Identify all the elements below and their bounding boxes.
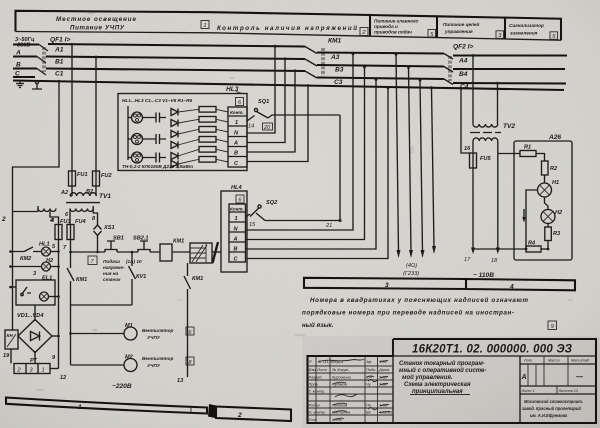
svg-text:SQ1: SQ1 — [258, 99, 269, 105]
svg-text:QF1 I>: QF1 I> — [50, 37, 70, 44]
G_NOTE — [302, 297, 557, 330]
index box 2 — [360, 28, 368, 36]
feeder wire to main drive 3 — [420, 80, 423, 252]
svg-text:Н1: Н1 — [552, 180, 559, 186]
diode V3 — [171, 131, 178, 138]
wire B1 — [46, 57, 305, 60]
svg-text:15: 15 — [249, 222, 256, 228]
feeder wire to main drive 1 — [396, 54, 399, 252]
lamp H1 — [538, 183, 552, 197]
feeder wire to main drive 4 — [432, 88, 435, 248]
svg-text:В: В — [234, 246, 238, 252]
protection block — [172, 251, 190, 253]
index box 7 — [88, 256, 97, 265]
PE rail corner from N bus — [13, 81, 60, 330]
TV2 core dashes — [470, 132, 501, 134]
section box: Местное освещение / Питание УЧПУ — [16, 11, 213, 32]
lamp HL1 — [128, 117, 132, 119]
title block frame — [308, 339, 597, 423]
wire V4 from C3 to HL4 row B — [246, 80, 376, 250]
elbow wire to HL3 row C — [247, 86, 308, 162]
wire V3 from B3 to HL4 row A — [246, 67, 365, 240]
svg-text:порядковые номера при перев: порядковые номера при переводе надписей … — [302, 310, 514, 317]
svg-text:Пров.: Пров. — [309, 382, 319, 387]
svg-text:ТН-0,2-2 КЛ0150В Д219: ТН-0,2-2 КЛ0150В Д219 1,5мВт — [122, 164, 193, 169]
svg-text:1: 1 — [203, 23, 206, 29]
bold mark — [213, 242, 219, 263]
svg-text:УЧПУ: УЧПУ — [147, 363, 161, 368]
wire B2 — [95, 186, 97, 196]
svg-text:ТV1: ТV1 — [99, 193, 111, 200]
block HL4 outline — [221, 191, 247, 272]
section box: Питание главного привода и приводов подач — [370, 15, 437, 38]
phase input stub L1 — [13, 43, 39, 45]
wire A1 — [48, 44, 305, 47]
index box 3 — [496, 31, 504, 39]
svg-text:ХS1: ХS1 — [103, 225, 115, 231]
svg-text:ЕL1: ЕL1 — [42, 276, 52, 282]
resistor R4 — [199, 137, 216, 143]
wire A4 — [453, 54, 567, 56]
transformer TV2 secondary — [473, 138, 498, 141]
control line — [71, 251, 161, 253]
svg-text:16: 16 — [464, 146, 471, 152]
inner left wire H1 loop — [526, 190, 538, 249]
index box 5 — [428, 30, 436, 38]
wire C3 — [317, 78, 444, 80]
svg-text:QF2 I>: QF2 I> — [453, 44, 473, 51]
svg-text:Станок токарный програм-: Станок токарный програм- — [399, 360, 485, 367]
svg-text:КV1: КV1 — [136, 274, 146, 280]
signature squiggles — [335, 394, 357, 397]
lamp HL2 — [128, 138, 132, 140]
diode V1 — [171, 109, 178, 116]
tap 6 from secondary — [69, 209, 71, 225]
section box: Контроль наличия напряжений — [212, 12, 370, 36]
svg-text:А26: А26 — [548, 134, 561, 141]
svg-text:Листов 13: Листов 13 — [558, 388, 579, 393]
relay KH — [5, 330, 18, 349]
svg-text:SВ1: SВ1 — [113, 236, 124, 242]
svg-text:21: 21 — [325, 223, 332, 229]
G_TITLE — [302, 336, 600, 428]
svg-text:КМ1: КМ1 — [76, 277, 87, 283]
G_MIDWIRES — [246, 45, 499, 277]
wire 18 down to signal line — [497, 154, 499, 250]
svg-text:С: С — [15, 71, 20, 78]
wire from N rail to secondary left — [13, 209, 39, 212]
svg-text:Конт.: Конт. — [230, 207, 244, 212]
fuse FU1 — [69, 171, 76, 186]
capacitor C2 — [143, 134, 167, 144]
svg-text:С3: С3 — [334, 79, 343, 86]
svg-text:ния на: ния на — [103, 271, 119, 276]
svg-text:ный язык.: ный язык. — [302, 322, 334, 329]
svg-text:R2: R2 — [550, 166, 558, 172]
wire V2 from A3 to HL4 row N — [246, 54, 353, 230]
elbow wire to HL3 row A — [247, 59, 285, 143]
bypass bottom wire — [71, 304, 133, 306]
wires diodes to resistors — [178, 109, 199, 164]
right cells grid — [520, 356, 596, 423]
svg-text:Вентилятор: Вентилятор — [142, 356, 174, 361]
node dot on A1 for FU1 — [71, 43, 74, 46]
svg-text:станок: станок — [103, 277, 121, 282]
wire R2 to H1 — [544, 175, 546, 183]
wire from B1 down to FU2 — [95, 57, 97, 171]
svg-text:R4: R4 — [528, 241, 536, 247]
svg-text:Дата: Дата — [378, 367, 390, 372]
svg-text:FU2: FU2 — [101, 173, 112, 179]
contact KM1 fan feed — [184, 263, 191, 377]
neutral wire N (long) — [13, 81, 564, 91]
connector XT of HL4 — [229, 204, 246, 262]
wires resistors to connector — [216, 109, 228, 162]
svg-text:КМ1: КМ1 — [328, 38, 342, 45]
G_HL3 — [118, 86, 247, 171]
svg-text:КМ2: КМ2 — [20, 256, 32, 262]
arrow into A26 — [523, 209, 525, 218]
block HL3 outline — [118, 94, 247, 171]
svg-text:3: 3 — [385, 282, 389, 289]
svg-text:1: 1 — [42, 368, 45, 374]
G_BOTTOM — [6, 278, 575, 421]
index box 6 — [236, 98, 244, 106]
svg-text:SQ2: SQ2 — [266, 200, 278, 206]
svg-text:Вентилятор: Вентилятор — [142, 328, 174, 333]
svg-text:По: По — [366, 403, 372, 408]
svg-text:1: 1 — [235, 216, 238, 222]
phase input stub A — [13, 55, 37, 57]
resistor R2 — [542, 161, 549, 175]
TV1 secondary winding 1 — [38, 209, 56, 212]
revision table entries — [309, 359, 393, 422]
svg-text:А2: А2 — [60, 190, 69, 196]
left revision table grid — [308, 366, 394, 415]
G_HL4 — [221, 185, 341, 272]
svg-text:Т. контр.: Т. контр. — [309, 389, 326, 394]
svg-text:В: В — [16, 62, 21, 69]
motor M1 fan — [71, 333, 125, 335]
svg-text:Масса: Масса — [548, 358, 560, 363]
feeder wire to main drive 2 — [409, 68, 412, 253]
index box 9 — [548, 321, 557, 330]
ground terminal with stub — [36, 81, 39, 84]
section box: Сигнализатор заземления — [505, 18, 561, 41]
bypass contact KV1 — [129, 252, 136, 305]
svg-text:А4: А4 — [458, 58, 468, 65]
secondary left lead / node 16 — [472, 141, 474, 153]
svg-text:С1: С1 — [55, 71, 64, 78]
fuse FU2 — [93, 171, 100, 186]
svg-text:Лист 1: Лист 1 — [521, 388, 535, 393]
node 5 wire — [58, 240, 60, 369]
svg-text:9: 9 — [551, 324, 554, 330]
svg-text:4: 4 — [509, 284, 514, 291]
svg-text:1ф: 1ф — [366, 359, 372, 364]
svg-text:КМ1: КМ1 — [192, 276, 203, 282]
svg-text:В: В — [234, 151, 238, 157]
title block shade — [302, 336, 600, 428]
wire C4 — [453, 82, 566, 85]
item bar 1 — [6, 398, 207, 414]
index box 5b — [550, 32, 558, 40]
TV1 secondary winding 2 — [70, 209, 93, 212]
svg-text:А1: А1 — [54, 47, 64, 54]
svg-text:мой управления.: мой управления. — [402, 374, 453, 381]
node dot on B1 for FU2 — [95, 56, 98, 59]
wire B3 — [317, 65, 444, 67]
index box 1 — [201, 21, 209, 29]
svg-text:2: 2 — [237, 412, 242, 419]
wire B4 — [453, 68, 565, 70]
resistor R1 — [520, 151, 536, 157]
factory name — [522, 399, 583, 418]
svg-text:1: 1 — [235, 120, 238, 126]
elbow wire to HL3 row B — [247, 71, 295, 152]
svg-text:13: 13 — [177, 378, 184, 384]
G_BUS — [13, 37, 567, 91]
svg-text:№ докум.: № докум. — [332, 367, 349, 372]
diode V2 — [171, 120, 178, 127]
HL3 left rail — [127, 106, 129, 160]
svg-text:НL1...НL3 С1...С3 V1–V6: НL1...НL3 С1...С3 V1–V6 R1–R6 — [122, 98, 192, 103]
elbow wire to HL3 row N — [247, 46, 275, 133]
svg-text:приводов подач: приводов подач — [374, 30, 412, 35]
coil KM1 — [160, 244, 172, 261]
svg-text:привода и: привода и — [374, 24, 398, 29]
svg-text:А: А — [521, 374, 527, 381]
capacitor C3 — [143, 153, 167, 163]
wire to R1 — [498, 153, 520, 155]
svg-text:~ 110В: ~ 110В — [473, 272, 494, 279]
svg-text:Утв.: Утв. — [309, 417, 318, 422]
svg-text:19: 19 — [3, 353, 10, 359]
EL1 lamp — [40, 292, 49, 301]
wire from C4 down to TV2 primary — [497, 83, 499, 124]
svg-text:напряже-: напряже- — [103, 265, 125, 270]
svg-text:А: А — [15, 50, 21, 57]
svg-text:14: 14 — [248, 124, 254, 130]
svg-text:~220В: ~220В — [112, 383, 132, 390]
connector XT of HL3 — [228, 107, 247, 167]
tap 4 from secondary — [50, 212, 59, 225]
svg-text:мный с оперативной систе-: мный с оперативной систе- — [399, 367, 486, 374]
svg-text:Масштаб: Масштаб — [571, 358, 590, 363]
svg-text:А: А — [233, 141, 238, 147]
fuse FU4 — [67, 225, 74, 240]
resistor R1 — [199, 107, 216, 113]
transformer TV2 primary — [473, 124, 498, 127]
wire from A1 down to FU1 — [71, 44, 73, 171]
svg-text:—: — — [575, 374, 584, 381]
bypass contact KM1 — [67, 252, 74, 305]
fuse FU3 — [55, 225, 62, 240]
signal line 17-18-R4 — [473, 248, 526, 250]
svg-text:(1А) 10: (1А) 10 — [126, 259, 142, 264]
resistor R3 — [199, 127, 216, 133]
index box 6 — [236, 195, 244, 203]
wire V5 from N to HL4 row C — [247, 88, 388, 259]
wire 17 down to signal line — [472, 168, 474, 249]
svg-text:Конт.: Конт. — [230, 110, 244, 115]
item bar 2 — [216, 407, 291, 422]
item bar 3 — [304, 278, 466, 289]
svg-text:(Г233): (Г233) — [403, 271, 419, 277]
svg-text:Н. контр.: Н. контр. — [309, 410, 327, 415]
svg-text:Н2: Н2 — [46, 258, 54, 264]
wire C1 — [46, 69, 305, 72]
svg-text:Изм: Изм — [309, 367, 317, 372]
G_TV1 — [1, 44, 112, 330]
phase input stub C (short) — [13, 76, 35, 78]
svg-text:VD1...VD4: VD1...VD4 — [17, 313, 44, 319]
drawing number cell — [392, 339, 394, 423]
svg-text:В1: В1 — [55, 59, 64, 66]
svg-text:КН: КН — [7, 333, 14, 338]
fuse FU5 — [470, 153, 477, 168]
svg-text:Сигнализатор: Сигнализатор — [509, 23, 544, 28]
block A26 outline — [514, 141, 572, 260]
svg-text:Местное освещение: Местное освещение — [56, 16, 137, 23]
G_CONTROL — [3, 218, 221, 390]
wire SQ2 to node 21 — [256, 213, 265, 221]
diode V5 — [171, 153, 178, 160]
svg-text:А3: А3 — [330, 54, 340, 61]
svg-text:R3: R3 — [553, 231, 561, 237]
resistor R3 — [545, 227, 552, 241]
wire H1 to H2 — [545, 197, 549, 210]
motor M2 fan — [71, 364, 125, 366]
svg-text:ЗГ111.ЛВРД-6: ЗГ111.ЛВРД-6 — [318, 359, 344, 364]
contact KM2 — [11, 247, 42, 252]
ground at left — [16, 81, 24, 88]
svg-text:Лист: Лист — [316, 367, 328, 372]
svg-text:Питание УЧПУ: Питание УЧПУ — [70, 25, 125, 32]
svg-text:20: 20 — [263, 125, 271, 131]
svg-text:А: А — [233, 236, 238, 242]
QF1 linkage — [43, 47, 45, 72]
bold wedge — [208, 404, 216, 418]
diode V4 — [171, 142, 178, 149]
svg-text:FU4: FU4 — [75, 219, 86, 225]
name cell text — [399, 360, 486, 395]
resistor R6 — [199, 157, 216, 163]
button SB1 — [105, 250, 117, 253]
svg-text:(4Ω): (4Ω) — [406, 263, 417, 269]
svg-text:Разраб.: Разраб. — [309, 375, 323, 380]
feed wire to fans — [70, 305, 72, 365]
wire R1 to R2 — [536, 154, 545, 162]
svg-text:НL4: НL4 — [231, 185, 242, 191]
resistor R4 — [526, 246, 541, 252]
tap 8 from secondary to XS1 — [93, 209, 97, 222]
svg-text:17: 17 — [464, 257, 471, 263]
resistor R2 — [199, 117, 216, 123]
node 7 wire — [70, 240, 72, 253]
svg-text:заземления: заземления — [510, 31, 538, 36]
G_TV2A26 — [464, 123, 572, 279]
svg-text:SВ2.1: SВ2.1 — [133, 236, 149, 242]
svg-text:УЧПУ: УЧПУ — [147, 335, 161, 340]
wire from N down along TV2 — [461, 88, 470, 153]
phase input stub B — [13, 67, 37, 69]
svg-text:им. А.И.Ефремова: им. А.И.Ефремова — [530, 413, 568, 418]
svg-text:Московский станкостроит.: Московский станкостроит. — [524, 399, 583, 404]
svg-text:В3: В3 — [335, 67, 344, 74]
svg-text:R1: R1 — [524, 145, 531, 151]
svg-text:2: 2 — [1, 216, 6, 223]
svg-text:КМ1: КМ1 — [173, 239, 184, 245]
scan smudges — [35, 12, 573, 391]
resistor R5 — [199, 147, 216, 153]
svg-text:НL1: НL1 — [39, 242, 50, 248]
svg-text:завод. Красный пролетарий: завод. Красный пролетарий — [522, 406, 581, 411]
svg-text:Родин: Родин — [309, 403, 321, 408]
svg-text:Н2: Н2 — [555, 210, 563, 216]
connector XS1 — [97, 221, 99, 225]
svg-text:FU5: FU5 — [480, 156, 491, 162]
svg-text:управления: управления — [444, 29, 473, 34]
svg-text:18: 18 — [491, 258, 498, 264]
node dot on N — [58, 80, 61, 83]
transformer TV1 primary — [70, 193, 96, 196]
lamp H2 — [541, 210, 555, 224]
svg-text:FU1: FU1 — [77, 172, 88, 178]
TV1 core — [66, 202, 100, 204]
wire A3 — [317, 53, 444, 54]
capacitor C1 — [143, 113, 167, 123]
svg-text:Питание цепей: Питание цепей — [443, 21, 480, 27]
diode V6 — [171, 161, 178, 168]
svg-text:Подп.: Подп. — [366, 367, 376, 372]
wire SQ1 to V1 — [268, 115, 340, 118]
section box: Питание цепей управления — [437, 16, 505, 39]
secondary bus wire — [38, 206, 93, 209]
lamp HL3 — [128, 157, 132, 159]
svg-text:ТV2: ТV2 — [503, 123, 515, 130]
svg-text:Подача: Подача — [103, 259, 120, 264]
svg-text:1: 1 — [78, 404, 82, 411]
G_HEADER — [16, 11, 562, 40]
svg-text:Схема электрическая: Схема электрическая — [404, 382, 471, 388]
svg-text:16К20Т1. 02. 000000. 000 ЭЗ: 16К20Т1. 02. 000000. 000 ЭЗ — [412, 344, 573, 356]
wire V1 interlock loop SQ1-SQ2 — [265, 115, 340, 221]
svg-text:Курочкина: Курочкина — [332, 375, 352, 380]
secondary right lead — [497, 141, 499, 154]
button SB2.1 — [138, 250, 150, 253]
svg-text:Лит.: Лит. — [523, 358, 533, 363]
wire R3 to line — [547, 241, 549, 250]
wire A2 — [71, 186, 73, 196]
svg-text:Р: Р — [309, 359, 312, 364]
wire 19 — [10, 349, 12, 364]
svg-text:В4: В4 — [459, 71, 468, 78]
luminaire EL1 box — [16, 280, 55, 305]
item bar 4 — [466, 279, 575, 290]
svg-text:Юч: Юч — [366, 375, 372, 380]
svg-text:Ве: Ве — [366, 410, 372, 415]
wire H2 to R3 — [547, 224, 549, 228]
wire from A4 down to TV2 primary — [472, 56, 474, 125]
svg-text:Номера в квадратиках у поя: Номера в квадратиках у поясняющих надпис… — [310, 297, 528, 304]
svg-text:12: 12 — [60, 375, 67, 381]
svg-text:Питание главного: Питание главного — [374, 19, 419, 24]
EL1 switch — [22, 287, 31, 294]
